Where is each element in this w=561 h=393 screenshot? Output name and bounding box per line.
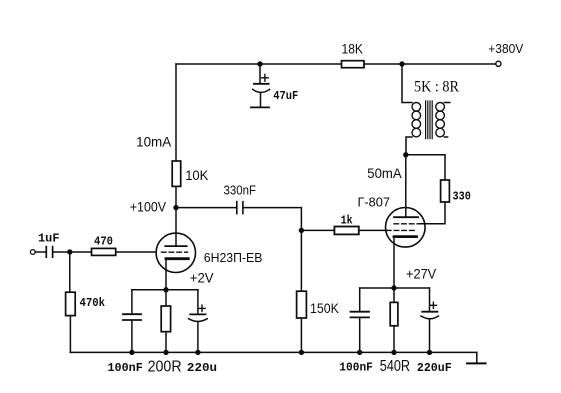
wire OPT primary bottom lead bbox=[406, 137, 412, 153]
svg-text:6Н23П-ЕВ: 6Н23П-ЕВ bbox=[204, 250, 263, 265]
resistor 330 bbox=[441, 180, 450, 202]
wire ground rail bbox=[70, 351, 476, 353]
svg-text:150K: 150K bbox=[310, 300, 339, 316]
junction cathode1 bbox=[163, 287, 168, 292]
junction rail dot 100nF left bbox=[129, 350, 134, 355]
svg-text:50mA: 50mA bbox=[367, 165, 402, 181]
junction rail dot 100nF right bbox=[357, 350, 362, 355]
resistor 10K bbox=[172, 161, 181, 186]
capacitor 1uF bbox=[46, 247, 52, 258]
wire B+ rail left segment bbox=[176, 63, 342, 65]
svg-text:18K: 18K bbox=[342, 41, 364, 57]
wire B+ rail right segment bbox=[364, 63, 496, 65]
resistor 470 bbox=[92, 248, 116, 255]
tube 6Н23П-ЕВ bbox=[156, 233, 195, 272]
wire cathode lead tube2 bbox=[393, 237, 395, 288]
svg-text:220uF: 220uF bbox=[417, 361, 452, 375]
junction rail dot 220u bbox=[195, 350, 200, 355]
svg-text:100nF: 100nF bbox=[108, 361, 143, 375]
svg-text:200R: 200R bbox=[148, 359, 182, 376]
svg-text:330: 330 bbox=[453, 190, 471, 204]
resistor 1k bbox=[334, 227, 358, 235]
svg-text:1k: 1k bbox=[341, 215, 353, 228]
wire 1k left bbox=[301, 229, 334, 231]
junction plate-screen node bbox=[403, 152, 408, 157]
wire grid entry bbox=[359, 229, 387, 231]
resistor 470k bbox=[66, 292, 76, 315]
wire 10K bottom and plate lead bbox=[175, 186, 177, 246]
wire cathode rail 1 bbox=[132, 289, 198, 291]
wire coupling run bbox=[243, 208, 301, 231]
junction +100V node bbox=[173, 205, 178, 210]
svg-text:1uF: 1uF bbox=[38, 231, 60, 245]
wire junction to 470 bbox=[70, 251, 92, 253]
wire screen branch lower bbox=[420, 202, 446, 224]
junction rail dot 200R bbox=[163, 350, 168, 355]
resistor 540R bbox=[390, 288, 398, 352]
svg-text:+380V: +380V bbox=[488, 41, 523, 56]
capacitor 100nF right bbox=[351, 288, 370, 352]
svg-text:5K : 8R: 5K : 8R bbox=[414, 79, 459, 96]
transformer OPT 5K:8R bbox=[412, 101, 450, 139]
svg-text:10mA: 10mA bbox=[136, 133, 172, 149]
wire cathode rail 2 bbox=[360, 287, 430, 289]
svg-text:Г-807: Г-807 bbox=[358, 194, 391, 209]
wire input right bbox=[54, 251, 70, 253]
wire screen branch upper bbox=[406, 155, 445, 180]
capacitor 330nF bbox=[237, 202, 243, 214]
svg-text:220u: 220u bbox=[187, 361, 217, 375]
capacitor 220uF electrolytic bbox=[421, 288, 438, 352]
capacitor 100nF left bbox=[123, 290, 141, 353]
wire input left bbox=[35, 251, 45, 253]
junction rail dot 220uF bbox=[427, 350, 432, 355]
wire 10K top bbox=[175, 64, 177, 161]
resistor 200R bbox=[161, 290, 170, 353]
capacitor 220u electrolytic bbox=[189, 290, 208, 353]
wire plate lead bbox=[405, 155, 407, 217]
svg-text:10K: 10K bbox=[185, 167, 209, 183]
resistor 150K bbox=[297, 230, 307, 352]
terminal input bbox=[30, 250, 35, 255]
junction OPT tap bbox=[399, 61, 404, 66]
wire 470k top bbox=[69, 252, 71, 292]
svg-text:47uF: 47uF bbox=[273, 89, 298, 103]
capacitor 47uF electrolytic bbox=[251, 64, 270, 107]
junction 47uF tap bbox=[257, 61, 262, 66]
svg-text:+100V: +100V bbox=[130, 198, 167, 214]
svg-text:330nF: 330nF bbox=[224, 182, 257, 197]
junction grid net bbox=[299, 228, 304, 233]
svg-text:540R: 540R bbox=[380, 358, 410, 375]
wire cathode lead tube1 bbox=[165, 259, 167, 290]
wire 470k bottom bbox=[69, 316, 71, 353]
ground bbox=[467, 352, 486, 363]
wire OPT primary top lead bbox=[402, 64, 412, 103]
junction rail dot 540R bbox=[391, 350, 396, 355]
junction cathode2 bbox=[391, 285, 396, 290]
tube Г-807 bbox=[386, 208, 426, 248]
svg-text:100nF: 100nF bbox=[339, 360, 373, 374]
resistor 18K bbox=[342, 61, 365, 68]
svg-text:470: 470 bbox=[94, 234, 113, 248]
wire +100V to cap bbox=[176, 207, 237, 209]
terminal +380V bbox=[496, 61, 501, 66]
junction input node bbox=[67, 249, 72, 254]
junction rail dot 150K bbox=[299, 350, 304, 355]
wire grid left tube bbox=[116, 251, 157, 253]
svg-text:470k: 470k bbox=[80, 296, 106, 310]
svg-text:+27V: +27V bbox=[406, 265, 437, 281]
svg-text:+2V: +2V bbox=[190, 270, 214, 286]
